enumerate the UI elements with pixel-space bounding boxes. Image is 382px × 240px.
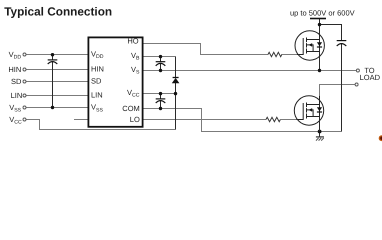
svg-text:up to 500V or 600V: up to 500V or 600V xyxy=(290,8,355,17)
svg-text:VSS: VSS xyxy=(91,103,103,114)
svg-text:HIN: HIN xyxy=(91,65,104,74)
svg-text:LO: LO xyxy=(130,115,140,124)
svg-text:HIN: HIN xyxy=(8,65,21,74)
svg-text:LOAD: LOAD xyxy=(360,73,381,82)
svg-text:SD: SD xyxy=(11,77,22,86)
svg-text:LIN: LIN xyxy=(11,91,23,100)
svg-text:LIN: LIN xyxy=(91,91,103,100)
svg-text:VCC: VCC xyxy=(127,88,140,99)
svg-text:VDD: VDD xyxy=(9,50,22,61)
svg-text:VS: VS xyxy=(131,65,140,76)
svg-text:HO: HO xyxy=(127,36,138,45)
svg-text:COM: COM xyxy=(122,104,140,113)
svg-text:VSS: VSS xyxy=(9,103,21,114)
svg-text:VDD: VDD xyxy=(91,50,104,61)
svg-text:VCC: VCC xyxy=(9,115,22,126)
svg-text:SD: SD xyxy=(91,77,102,86)
svg-text:VB: VB xyxy=(131,51,140,62)
svg-text:Typical Connection: Typical Connection xyxy=(4,4,112,18)
